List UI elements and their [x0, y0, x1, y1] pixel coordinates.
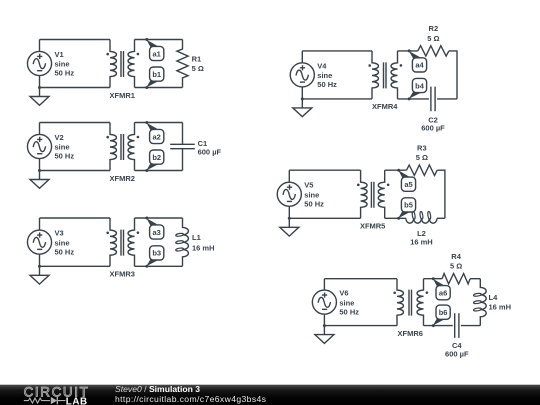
capacitor C2 — [431, 87, 435, 112]
wire — [385, 169, 407, 171]
transformer XFMR3 primary winding — [110, 218, 116, 266]
node probe b4 — [408, 78, 427, 100]
svg-text:XFMR3: XFMR3 — [110, 270, 135, 279]
transformer XFMR6 core — [409, 290, 412, 316]
transformer XFMR2 secondary winding — [128, 123, 134, 171]
node probe a3 — [145, 217, 164, 240]
inductor L2 — [406, 211, 437, 223]
wire — [135, 39, 183, 41]
resistor R3 — [407, 165, 438, 175]
transformer XFMR5 core — [371, 182, 374, 208]
svg-text:5 Ω: 5 Ω — [450, 262, 462, 271]
svg-text:V5: V5 — [304, 181, 313, 190]
svg-text:16 mH: 16 mH — [192, 243, 215, 252]
voltage source V5 — [277, 182, 301, 206]
svg-text:sine: sine — [304, 190, 319, 199]
transformer XFMR2 core — [121, 134, 124, 160]
svg-text:V6: V6 — [339, 289, 348, 298]
transformer XFMR3 core — [121, 230, 124, 256]
node probe b2 — [145, 150, 164, 172]
transformer XFMR4 primary phase dot — [368, 64, 371, 67]
svg-text:50 Hz: 50 Hz — [317, 80, 337, 89]
resistor R2 — [418, 46, 449, 56]
svg-text:b6: b6 — [439, 308, 448, 317]
voltage source V3 — [27, 230, 51, 254]
wire — [398, 98, 429, 100]
svg-text:b5: b5 — [404, 201, 413, 210]
inductor L1 — [176, 218, 189, 266]
wire — [301, 51, 303, 99]
voltage source V1 — [27, 51, 51, 75]
wire — [385, 217, 406, 219]
svg-text:sine: sine — [317, 71, 332, 80]
wire — [470, 278, 480, 280]
transformer XFMR1 secondary winding — [128, 40, 134, 88]
wire — [324, 278, 397, 280]
transformer XFMR2 primary phase dot — [106, 136, 109, 139]
wire — [424, 278, 443, 280]
voltage source V4 — [290, 63, 314, 87]
svg-text:V3: V3 — [55, 229, 64, 238]
node probe b3 — [145, 246, 164, 268]
ground — [30, 88, 49, 106]
node probe a1 — [145, 38, 164, 61]
transformer XFMR4 secondary phase dot — [400, 64, 403, 67]
resistor R4 — [442, 274, 470, 284]
svg-text:a6: a6 — [439, 289, 447, 298]
svg-text:b2: b2 — [152, 153, 161, 162]
node probe a2 — [145, 121, 164, 144]
svg-text:a1: a1 — [153, 49, 161, 58]
svg-text:XFMR6: XFMR6 — [398, 329, 423, 338]
wire — [40, 265, 111, 267]
wire — [437, 98, 457, 100]
svg-text:R4: R4 — [451, 252, 461, 261]
transformer XFMR3 secondary winding — [128, 218, 134, 266]
node probe a4 — [408, 49, 427, 72]
svg-text:a5: a5 — [404, 180, 412, 189]
transformer XFMR1 primary phase dot — [106, 53, 109, 56]
svg-text:L4: L4 — [489, 293, 499, 302]
wire — [135, 170, 183, 172]
voltage source V6 — [312, 290, 336, 314]
svg-text:5 Ω: 5 Ω — [427, 34, 439, 43]
ground — [315, 326, 334, 344]
svg-text:b4: b4 — [415, 81, 425, 90]
transformer XFMR6 primary winding — [397, 279, 403, 326]
svg-text:b1: b1 — [152, 70, 161, 79]
wire — [424, 325, 453, 327]
wire — [461, 325, 480, 327]
wire — [40, 122, 111, 124]
transformer XFMR4 secondary winding — [391, 51, 397, 99]
capacitor C1 — [170, 123, 195, 171]
transformer XFMR6 primary phase dot — [393, 291, 396, 294]
transformer XFMR2 secondary phase dot — [137, 136, 140, 139]
svg-text:sine: sine — [55, 143, 70, 152]
transformer XFMR3 secondary phase dot — [137, 231, 140, 234]
svg-text:XFMR2: XFMR2 — [110, 174, 135, 183]
wire — [39, 123, 41, 171]
svg-text:50 Hz: 50 Hz — [55, 69, 75, 78]
svg-text:LAB: LAB — [66, 396, 88, 405]
junction dot — [38, 169, 41, 172]
svg-text:50 Hz: 50 Hz — [304, 199, 324, 208]
transformer XFMR1 primary winding — [110, 40, 116, 88]
svg-text:V1: V1 — [55, 50, 64, 59]
transformer XFMR4 primary winding — [372, 51, 378, 99]
wire — [135, 122, 183, 124]
wire — [40, 170, 111, 172]
transformer XFMR3 primary phase dot — [106, 231, 109, 234]
wire — [135, 217, 183, 219]
junction dot — [38, 265, 41, 268]
capacitor C4 — [455, 313, 459, 338]
wire — [40, 39, 111, 41]
svg-text:600 µF: 600 µF — [445, 349, 469, 358]
svg-text:Steve0 / Simulation 3: Steve0 / Simulation 3 — [115, 384, 200, 394]
svg-text:sine: sine — [339, 298, 354, 307]
svg-text:sine: sine — [55, 60, 70, 69]
wire — [288, 170, 290, 218]
wire — [39, 218, 41, 266]
ground — [293, 99, 312, 117]
svg-text:R3: R3 — [417, 143, 427, 152]
resistor R1 — [177, 40, 188, 88]
svg-text:XFMR1: XFMR1 — [110, 91, 135, 100]
wire — [289, 169, 360, 171]
svg-text:a4: a4 — [415, 61, 424, 70]
svg-text:5 Ω: 5 Ω — [192, 64, 204, 73]
svg-text:R1: R1 — [192, 55, 202, 64]
node probe b6 — [432, 305, 450, 327]
svg-text:b3: b3 — [152, 249, 161, 258]
transformer XFMR1 core — [121, 51, 124, 77]
wire — [437, 217, 445, 219]
node probe a5 — [397, 169, 415, 192]
svg-text:16 mH: 16 mH — [489, 302, 512, 311]
svg-text:16 mH: 16 mH — [410, 238, 433, 247]
svg-text:sine: sine — [55, 238, 70, 247]
transformer XFMR1 secondary phase dot — [137, 53, 140, 56]
junction dot — [301, 97, 304, 100]
transformer XFMR4 core — [384, 62, 387, 88]
ground — [280, 218, 299, 236]
svg-text:XFMR4: XFMR4 — [372, 102, 398, 111]
wire — [289, 217, 360, 219]
transformer XFMR5 secondary winding — [378, 170, 384, 218]
svg-text:600 µF: 600 µF — [421, 124, 445, 133]
svg-text:XFMR5: XFMR5 — [360, 222, 385, 231]
transformer XFMR5 primary phase dot — [357, 184, 360, 187]
svg-text:50 Hz: 50 Hz — [55, 247, 75, 256]
wire — [40, 217, 111, 219]
svg-text:http://circuitlab.com/c7e6xw4g: http://circuitlab.com/c7e6xw4g3bs4s — [115, 394, 266, 404]
junction dot — [288, 217, 291, 220]
transformer XFMR6 secondary phase dot — [426, 291, 429, 294]
node probe b1 — [145, 67, 164, 89]
wire — [135, 265, 183, 267]
svg-text:5 Ω: 5 Ω — [416, 153, 428, 162]
svg-text:V4: V4 — [317, 61, 327, 70]
CircuitLab logo resistor-diode icon — [24, 397, 66, 405]
wire — [135, 87, 183, 89]
wire — [302, 50, 372, 52]
wire — [39, 40, 41, 88]
junction dot — [323, 324, 326, 327]
transformer XFMR5 secondary phase dot — [387, 183, 390, 186]
footer bar — [0, 385, 540, 405]
svg-text:a2: a2 — [153, 132, 161, 141]
wire — [324, 325, 397, 327]
wire — [323, 279, 325, 326]
svg-text:L2: L2 — [417, 229, 426, 238]
wire — [40, 87, 111, 89]
svg-text:50 Hz: 50 Hz — [339, 307, 359, 316]
transformer XFMR2 primary winding — [110, 123, 116, 171]
svg-text:600 µF: 600 µF — [198, 147, 222, 156]
ground — [30, 171, 49, 189]
node probe a6 — [432, 277, 450, 300]
transformer XFMR6 secondary winding — [417, 279, 423, 326]
voltage source V2 — [27, 134, 51, 158]
transformer XFMR5 primary winding — [361, 170, 367, 218]
svg-text:V2: V2 — [55, 133, 64, 142]
svg-text:a3: a3 — [153, 228, 161, 237]
wire — [437, 170, 445, 218]
wire — [302, 98, 372, 100]
wire — [398, 50, 418, 52]
svg-text:L1: L1 — [192, 233, 201, 242]
junction dot — [38, 86, 41, 89]
node probe b5 — [397, 198, 415, 220]
svg-text:R2: R2 — [429, 24, 439, 33]
inductor L4 — [473, 279, 486, 326]
wire — [449, 51, 457, 99]
ground — [30, 266, 49, 284]
svg-text:50 Hz: 50 Hz — [55, 152, 75, 161]
